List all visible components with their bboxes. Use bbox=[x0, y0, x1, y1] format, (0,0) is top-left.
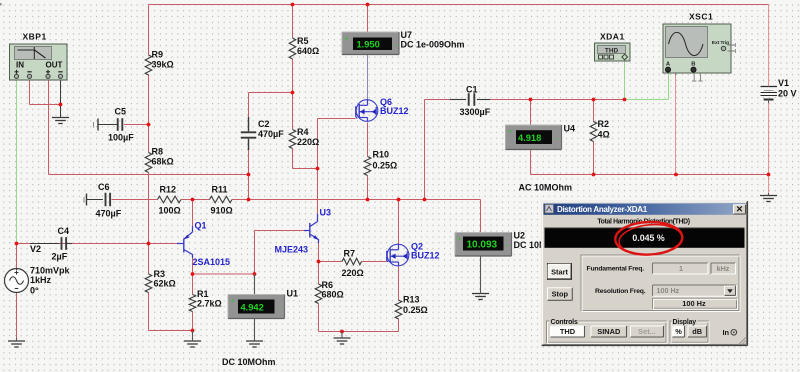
svg-text:R3: R3 bbox=[154, 269, 166, 279]
svg-text:kHz: kHz bbox=[717, 264, 730, 273]
svg-text:Set...: Set... bbox=[638, 327, 656, 336]
svg-text:4.918: 4.918 bbox=[518, 133, 541, 143]
svg-text:680Ω: 680Ω bbox=[322, 290, 344, 300]
svg-text:2.7kΩ: 2.7kΩ bbox=[197, 299, 222, 309]
svg-text:DC 10MOhm: DC 10MOhm bbox=[222, 357, 276, 367]
svg-text:1.950: 1.950 bbox=[357, 40, 380, 50]
svg-text:100Ω: 100Ω bbox=[159, 206, 181, 216]
svg-text:R7: R7 bbox=[344, 249, 356, 259]
svg-text:C5: C5 bbox=[115, 107, 127, 117]
svg-text:710mVpk: 710mVpk bbox=[30, 266, 71, 276]
svg-text:R10: R10 bbox=[373, 150, 390, 160]
svg-text:R2: R2 bbox=[598, 119, 610, 129]
svg-text:U1: U1 bbox=[287, 289, 299, 299]
svg-text:R9: R9 bbox=[152, 50, 164, 60]
svg-text:640Ω: 640Ω bbox=[297, 46, 319, 56]
svg-text:OUT: OUT bbox=[46, 61, 63, 70]
svg-text:100µF: 100µF bbox=[108, 133, 134, 143]
svg-text:R11: R11 bbox=[212, 185, 228, 195]
svg-text:0°: 0° bbox=[30, 286, 39, 296]
svg-text:39kΩ: 39kΩ bbox=[152, 60, 174, 70]
svg-text:1: 1 bbox=[679, 264, 683, 273]
svg-text:THD: THD bbox=[560, 327, 576, 336]
svg-text:R5: R5 bbox=[297, 36, 309, 46]
svg-text:470µF: 470µF bbox=[258, 129, 284, 139]
svg-text:DC 1e-009Ohm: DC 1e-009Ohm bbox=[401, 40, 465, 50]
svg-text:V2: V2 bbox=[30, 244, 41, 254]
svg-text:U3: U3 bbox=[320, 208, 332, 218]
svg-text:Display: Display bbox=[673, 319, 697, 326]
svg-text:+: + bbox=[345, 36, 349, 43]
svg-text:2µF: 2µF bbox=[52, 252, 68, 262]
svg-text:MJE243: MJE243 bbox=[275, 245, 309, 255]
svg-text:THD: THD bbox=[605, 47, 619, 54]
svg-text:+: + bbox=[508, 129, 512, 136]
svg-text:In: In bbox=[723, 328, 730, 337]
svg-text:×: × bbox=[736, 204, 742, 216]
svg-text:Start: Start bbox=[551, 267, 568, 276]
svg-text:Ext Trig: Ext Trig bbox=[712, 40, 729, 46]
svg-text:C2: C2 bbox=[258, 119, 270, 129]
svg-text:62kΩ: 62kΩ bbox=[154, 279, 176, 289]
svg-text:910Ω: 910Ω bbox=[211, 206, 233, 216]
svg-text:3300µF: 3300µF bbox=[460, 107, 491, 117]
svg-text:IN: IN bbox=[16, 61, 24, 70]
svg-text:U2: U2 bbox=[514, 231, 526, 241]
svg-text:Distortion Analyzer-XDA1: Distortion Analyzer-XDA1 bbox=[557, 205, 648, 214]
svg-text:R1: R1 bbox=[197, 289, 209, 299]
svg-text:20 V: 20 V bbox=[778, 89, 797, 99]
svg-text:C6: C6 bbox=[98, 182, 110, 192]
svg-text:R6: R6 bbox=[322, 280, 334, 290]
svg-text:4Ω: 4Ω bbox=[598, 130, 610, 140]
svg-text:68kΩ: 68kΩ bbox=[152, 157, 174, 167]
svg-text:+: + bbox=[458, 236, 462, 243]
svg-text:V1: V1 bbox=[778, 78, 789, 88]
svg-text:0.045 %: 0.045 % bbox=[632, 233, 664, 243]
svg-text:4.942: 4.942 bbox=[241, 303, 264, 313]
svg-text:AC 10MOhm: AC 10MOhm bbox=[519, 183, 573, 193]
svg-text:Q1: Q1 bbox=[195, 221, 207, 231]
svg-text:Fundamental Freq.: Fundamental Freq. bbox=[587, 266, 645, 273]
svg-text:470µF: 470µF bbox=[96, 209, 122, 219]
svg-text:100 Hz: 100 Hz bbox=[657, 286, 680, 295]
svg-text:220Ω: 220Ω bbox=[342, 268, 364, 278]
svg-text:dB: dB bbox=[692, 327, 702, 336]
svg-text:1kHz: 1kHz bbox=[30, 275, 52, 285]
svg-text:R13: R13 bbox=[403, 295, 420, 305]
svg-text:Controls: Controls bbox=[551, 319, 578, 326]
svg-text:SINAD: SINAD bbox=[597, 327, 621, 336]
svg-text:C1: C1 bbox=[466, 85, 478, 95]
svg-text:10.093: 10.093 bbox=[467, 240, 498, 251]
svg-text:100 Hz: 100 Hz bbox=[682, 299, 706, 308]
svg-text:+: + bbox=[231, 298, 235, 305]
svg-text:BUZ12: BUZ12 bbox=[411, 251, 440, 261]
svg-text:%: % bbox=[675, 327, 682, 336]
svg-text:XSC1: XSC1 bbox=[689, 12, 713, 22]
svg-text:R4: R4 bbox=[297, 127, 309, 137]
svg-text:Resolution Freq.: Resolution Freq. bbox=[595, 288, 646, 295]
svg-text:U4: U4 bbox=[564, 124, 576, 134]
svg-text:XBP1: XBP1 bbox=[23, 32, 47, 42]
svg-text:Stop: Stop bbox=[552, 290, 569, 299]
svg-text:XDA1: XDA1 bbox=[600, 32, 625, 42]
svg-text:R8: R8 bbox=[152, 147, 164, 157]
svg-text:R12: R12 bbox=[160, 185, 177, 195]
svg-text:2SA1015: 2SA1015 bbox=[193, 257, 231, 267]
svg-text:220Ω: 220Ω bbox=[297, 137, 319, 147]
svg-text:0.25Ω: 0.25Ω bbox=[403, 305, 428, 315]
svg-text:U7: U7 bbox=[401, 30, 413, 40]
svg-text:BUZ12: BUZ12 bbox=[380, 106, 409, 116]
svg-text:C4: C4 bbox=[58, 226, 70, 236]
svg-text:0.25Ω: 0.25Ω bbox=[373, 161, 398, 171]
